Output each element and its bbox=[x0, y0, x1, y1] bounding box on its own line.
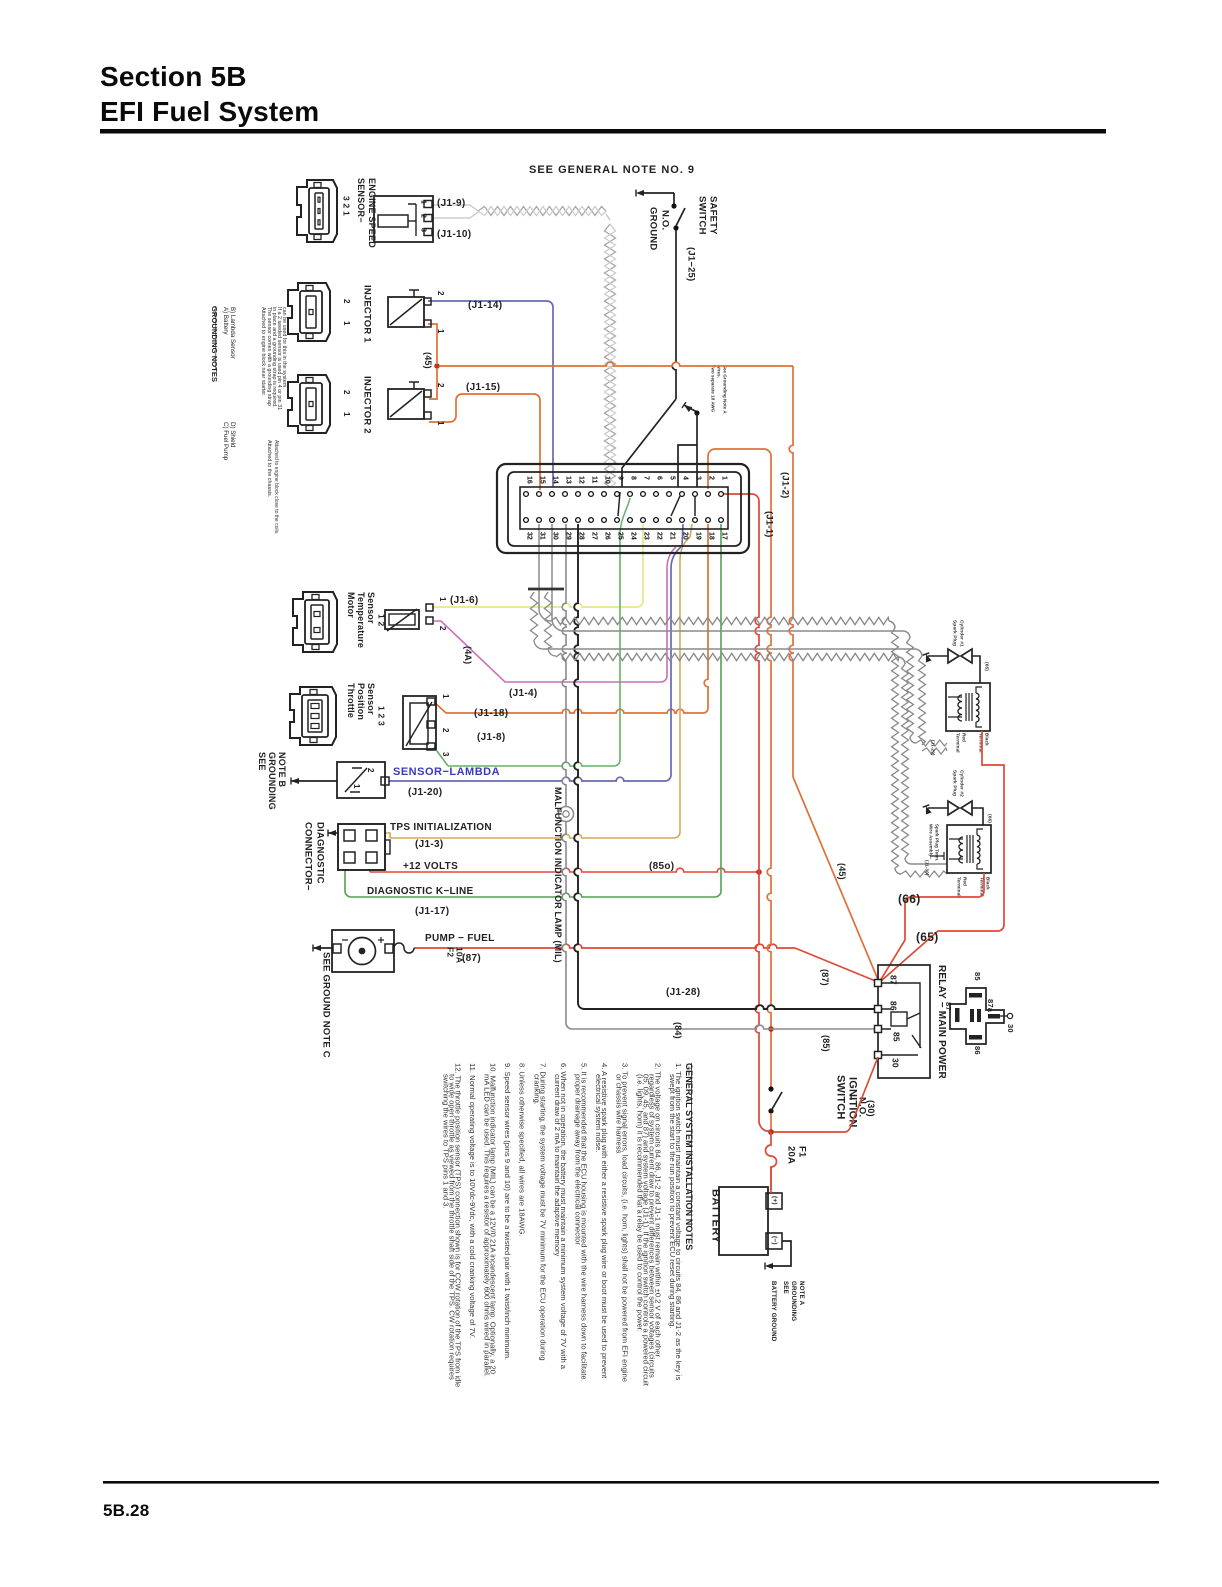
svg-text:GROUNDING: GROUNDING bbox=[790, 1281, 797, 1321]
wire coil1 red 65 bbox=[881, 731, 1004, 981]
svg-text:SAFETY: SAFETY bbox=[707, 196, 718, 235]
svg-text:Terminal: Terminal bbox=[957, 877, 962, 897]
svg-text:B) Lambda Sensor: B) Lambda Sensor bbox=[229, 307, 236, 359]
svg-text:85: 85 bbox=[973, 972, 982, 981]
svg-text:(66): (66) bbox=[898, 892, 921, 906]
svg-text:Wire Assembly−: Wire Assembly− bbox=[928, 824, 933, 860]
wire temp sensor pink 4A J1-4 bbox=[434, 547, 676, 682]
svg-text:32: 32 bbox=[525, 532, 532, 540]
svg-text:F1: F1 bbox=[796, 1146, 807, 1158]
lambda pin bbox=[381, 777, 389, 785]
svg-text:(J1-14): (J1-14) bbox=[468, 300, 502, 311]
connector icon injector 2 bbox=[288, 375, 330, 433]
svg-text:GROUNDING: GROUNDING bbox=[267, 752, 277, 810]
svg-text:See Grounding Note A: See Grounding Note A bbox=[722, 365, 727, 414]
svg-text:(45): (45) bbox=[837, 863, 847, 880]
wire battery plus from fuse bbox=[770, 1167, 772, 1193]
wire pump fuel red 87 bbox=[414, 944, 795, 948]
svg-text:2: 2 bbox=[436, 383, 445, 388]
svg-text:87a: 87a bbox=[986, 999, 995, 1013]
svg-text:SENSOR−: SENSOR− bbox=[356, 178, 366, 223]
connector icon throttle position sensor bbox=[290, 687, 336, 745]
svg-text:4: 4 bbox=[681, 476, 688, 480]
wire TPS initialization tan J1-3 bbox=[385, 833, 390, 838]
svg-text:3: 3 bbox=[694, 476, 701, 480]
relay socket icon bbox=[950, 988, 1004, 1044]
svg-text:Terminal: Terminal bbox=[956, 733, 961, 753]
wire black pin28 to relay 86 line 84 bbox=[574, 524, 578, 1003]
svg-text:(87): (87) bbox=[820, 969, 830, 986]
svg-text:(J1-4): (J1-4) bbox=[509, 688, 537, 699]
svg-text:RELAY − MAIN POWER: RELAY − MAIN POWER bbox=[936, 965, 947, 1079]
relay internals bbox=[881, 983, 920, 1048]
relay main power box bbox=[878, 965, 930, 1078]
diagnostic connector box bbox=[338, 824, 385, 870]
wire spark plug2 to coil2 bbox=[972, 808, 983, 825]
svg-text:11. Normal operating voltage: 11. Normal operating voltage is to 10Vdc… bbox=[468, 1063, 477, 1338]
svg-text:Black: Black bbox=[986, 877, 991, 890]
footer rule bbox=[103, 1481, 1159, 1484]
svg-text:(J1-10): (J1-10) bbox=[437, 229, 471, 240]
injector1 pin2 bbox=[424, 298, 431, 305]
svg-text:23: 23 bbox=[642, 532, 649, 540]
svg-text:1: 1 bbox=[342, 412, 351, 417]
wire 45 diagonal to relay 87 bbox=[793, 777, 879, 982]
svg-text:3 2 1: 3 2 1 bbox=[342, 196, 352, 216]
svg-text:+12 VOLTS: +12 VOLTS bbox=[403, 861, 458, 872]
ignition coil 1 bbox=[946, 683, 990, 731]
svg-text:(30): (30) bbox=[866, 1100, 876, 1117]
ground arrow lambda bbox=[291, 778, 299, 784]
svg-text:DIAGNOSTIC K−LINE: DIAGNOSTIC K−LINE bbox=[367, 886, 474, 897]
wire temp sensor yellow J1-6 bbox=[432, 603, 637, 607]
TPS body bbox=[403, 696, 436, 749]
svg-text:25: 25 bbox=[616, 532, 623, 540]
svg-text:(J1-18): (J1-18) bbox=[474, 708, 508, 719]
svg-text:30: 30 bbox=[551, 532, 558, 540]
ECU connector J1 outer shell bbox=[497, 464, 749, 553]
svg-text:3: 3 bbox=[441, 752, 450, 757]
svg-text:TPS INITIALIZATION: TPS INITIALIZATION bbox=[390, 822, 492, 833]
svg-text:NOTE A: NOTE A bbox=[798, 1281, 805, 1306]
coil pair straight horizontal 649 bbox=[543, 648, 915, 650]
node 45 junction bbox=[434, 363, 440, 369]
svg-text:2: 2 bbox=[342, 299, 351, 304]
wire injector1 pin1 orange to node 45 bbox=[428, 324, 437, 363]
svg-text:(J1-1): (J1-1) bbox=[763, 511, 774, 538]
safety switch SW1 bbox=[673, 193, 675, 204]
svg-text:8. Unless otherwise specified: 8. Unless otherwise specified, all wires… bbox=[518, 1063, 527, 1237]
wire J1-25 inside connector to pin 25 bbox=[618, 492, 620, 516]
svg-text:85: 85 bbox=[892, 1032, 902, 1042]
svg-text:Sensor: Sensor bbox=[366, 592, 376, 624]
wire relay85 grey horizontal bbox=[572, 1025, 876, 1029]
svg-text:Cylinder #2: Cylinder #2 bbox=[959, 770, 965, 797]
svg-text:1: 1 bbox=[419, 200, 426, 204]
svg-text:8: 8 bbox=[629, 476, 636, 480]
battery box bbox=[719, 1187, 768, 1255]
wire ignition switch lower to junction bbox=[770, 1113, 772, 1132]
svg-text:mA LED can be used. This requ: mA LED can be used. This requires a resi… bbox=[483, 1074, 492, 1377]
svg-text:9. Speed sensor wires (pins 9: 9. Speed sensor wires (pins 9 and 10) ar… bbox=[503, 1063, 512, 1360]
svg-text:Section 5B: Section 5B bbox=[100, 61, 247, 92]
svg-text:SEE: SEE bbox=[257, 752, 267, 771]
svg-text:N.O.: N.O. bbox=[659, 210, 670, 230]
svg-text:29: 29 bbox=[564, 532, 571, 540]
svg-text:22: 22 bbox=[655, 532, 662, 540]
svg-text:13: 13 bbox=[564, 476, 571, 484]
svg-text:6: 6 bbox=[655, 476, 662, 480]
svg-text:DIAGNOSTIC: DIAGNOSTIC bbox=[314, 822, 325, 884]
battery terminal plus bbox=[766, 1193, 782, 1209]
svg-text:D) Shield: D) Shield bbox=[229, 422, 236, 448]
svg-text:Spark Plug: Spark Plug bbox=[952, 620, 958, 646]
connector icon injector 1 bbox=[288, 283, 330, 341]
svg-text:(J1-6): (J1-6) bbox=[450, 595, 478, 606]
svg-text:14: 14 bbox=[551, 476, 558, 484]
injector 2 body bbox=[388, 389, 424, 419]
wire safety switch to general note arrow bbox=[640, 192, 674, 194]
svg-text:BATTERY: BATTERY bbox=[710, 1189, 722, 1243]
svg-text:Sensor: Sensor bbox=[366, 683, 376, 715]
ground arrow diagnostic bbox=[328, 830, 336, 836]
svg-text:SWITCH: SWITCH bbox=[696, 196, 707, 235]
svg-text:1: 1 bbox=[720, 476, 727, 480]
coil pair lower zigzag horizontal bbox=[556, 653, 899, 660]
svg-text:1: 1 bbox=[436, 421, 445, 426]
wire J1-2 orange from pin2 bbox=[708, 449, 771, 489]
svg-text:Position: Position bbox=[356, 683, 366, 720]
svg-text:Cylinder #1: Cylinder #1 bbox=[959, 620, 965, 647]
svg-text:(J1-9): (J1-9) bbox=[437, 198, 465, 209]
svg-text:20: 20 bbox=[681, 532, 688, 540]
svg-text:EFI Fuel System: EFI Fuel System bbox=[100, 96, 319, 127]
svg-text:(65): (65) bbox=[984, 662, 990, 671]
svg-text:Two separate 18 AWG: Two separate 18 AWG bbox=[710, 365, 715, 413]
wire lambda blue J1-20 bbox=[389, 777, 665, 781]
wire MIL grey from pin29 bbox=[562, 524, 566, 806]
svg-text:Red: Red bbox=[963, 877, 968, 886]
coil pair straight horizontal 631 bbox=[552, 619, 564, 631]
svg-text:or chassis wire harness: or chassis wire harness bbox=[615, 1074, 624, 1154]
fuse F1 20A bbox=[766, 1132, 777, 1190]
svg-text:current draw of 2 mA to mainta: current draw of 2 mA to maintain the ada… bbox=[553, 1074, 562, 1257]
svg-text:30: 30 bbox=[1006, 1024, 1015, 1033]
svg-text:INJECTOR 2: INJECTOR 2 bbox=[361, 376, 372, 434]
svg-text:7: 7 bbox=[642, 476, 649, 480]
svg-text:Temperature: Temperature bbox=[356, 592, 366, 648]
svg-text:16: 16 bbox=[525, 476, 532, 484]
TPS pins bbox=[427, 698, 435, 705]
svg-text:BATTERY GROUND: BATTERY GROUND bbox=[770, 1281, 777, 1342]
svg-text:SEE GROUND NOTE C: SEE GROUND NOTE C bbox=[320, 952, 331, 1058]
svg-text:(−): (−) bbox=[771, 1236, 778, 1245]
spark plug cylinder 1 bbox=[948, 649, 959, 663]
svg-text:(45): (45) bbox=[423, 352, 433, 369]
svg-text:28: 28 bbox=[577, 532, 584, 540]
svg-text:GENERAL SYSTEM INSTALLATION NO: GENERAL SYSTEM INSTALLATION NOTES bbox=[684, 1063, 694, 1250]
svg-text:GROUNDING NOTES: GROUNDING NOTES bbox=[210, 306, 219, 382]
coil1 pair horizontal into coil bbox=[910, 737, 916, 743]
svg-text:(85o): (85o) bbox=[649, 861, 674, 872]
svg-text:86: 86 bbox=[973, 1046, 982, 1055]
injector 1 body bbox=[388, 297, 424, 327]
svg-text:Attached to the chassis.: Attached to the chassis. bbox=[266, 440, 272, 497]
svg-text:2: 2 bbox=[419, 214, 426, 218]
ground arrow two separate wires bbox=[684, 405, 692, 412]
lambda sensor box bbox=[337, 762, 385, 798]
svg-text:(J1-17): (J1-17) bbox=[415, 906, 449, 917]
svg-text:(65): (65) bbox=[916, 930, 939, 944]
connector icon motor temp sensor bbox=[293, 592, 337, 652]
wire battery minus to ground bbox=[767, 1241, 791, 1266]
connector icon engine speed sensor bbox=[297, 180, 337, 242]
motor temp sensor body bbox=[385, 610, 419, 629]
svg-text:(66): (66) bbox=[987, 814, 993, 823]
svg-text:swept from the start to the ru: swept from the start to the run position… bbox=[668, 1074, 677, 1329]
svg-text:2: 2 bbox=[438, 626, 447, 631]
svg-text:20A: 20A bbox=[785, 1146, 796, 1164]
twisted pair speed sensor vertical to ECU bbox=[605, 224, 616, 487]
ECU pins and numbers bbox=[719, 492, 724, 497]
svg-text:87: 87 bbox=[944, 1002, 953, 1011]
wire coil2 red 66 bbox=[880, 873, 984, 981]
fuse F2 10A bbox=[394, 943, 414, 953]
wire ground pair to ECU pins 3 and 4 bbox=[694, 410, 699, 415]
svg-text:5: 5 bbox=[668, 476, 675, 480]
svg-text:Spark Plug: Spark Plug bbox=[952, 770, 958, 796]
svg-text:2: 2 bbox=[436, 291, 445, 296]
svg-text:C) Fuel Pump: C) Fuel Pump bbox=[222, 422, 229, 461]
header rule bbox=[100, 129, 1106, 134]
speed sensor pins bbox=[424, 201, 432, 208]
wire relay 30 to ignition switch bbox=[774, 1057, 878, 1132]
fuel pump box bbox=[332, 930, 394, 972]
svg-text:SEE GENERAL NOTE NO. 9: SEE GENERAL NOTE NO. 9 bbox=[529, 164, 695, 176]
svg-text:GROUND: GROUND bbox=[647, 207, 658, 250]
svg-text:(J1-28): (J1-28) bbox=[666, 987, 700, 998]
svg-text:SEE: SEE bbox=[782, 1281, 789, 1294]
svg-text:18: 18 bbox=[707, 532, 714, 540]
svg-text:(85): (85) bbox=[821, 1035, 831, 1052]
svg-text:(87): (87) bbox=[462, 953, 481, 964]
svg-text:Throttle: Throttle bbox=[346, 683, 356, 718]
svg-text:12: 12 bbox=[577, 476, 584, 484]
svg-text:2: 2 bbox=[342, 390, 351, 395]
wire +12 volts red 85o bbox=[369, 869, 371, 872]
svg-text:9: 9 bbox=[616, 476, 623, 480]
svg-text:(i.e. lights, horn) it is reco: (i.e. lights, horn) it is recommended th… bbox=[635, 1074, 644, 1332]
injector1 pin1 bbox=[424, 320, 431, 327]
svg-text:Attached to engine block near: Attached to engine block near starter. bbox=[260, 307, 266, 396]
svg-text:CONNECTOR−: CONNECTOR− bbox=[302, 822, 313, 891]
svg-text:(J1−25): (J1−25) bbox=[685, 247, 696, 281]
ignition coil 2 bbox=[947, 825, 991, 873]
wire spark plug1 to coil1 bbox=[972, 656, 980, 683]
wire speed sensor leads bbox=[433, 204, 470, 206]
wire TPS pin1 orange J1-18 bbox=[434, 702, 446, 713]
svg-text:86: 86 bbox=[889, 1001, 899, 1011]
svg-text:5B.28: 5B.28 bbox=[103, 1501, 149, 1520]
svg-text:SENSOR−LAMBDA: SENSOR−LAMBDA bbox=[393, 766, 500, 778]
svg-text:2: 2 bbox=[366, 768, 375, 773]
wire injector1 pin2 blue J1-14 bbox=[428, 301, 553, 487]
svg-text:Attached to engine block close: Attached to engine block close to the co… bbox=[273, 440, 279, 535]
svg-text:(+): (+) bbox=[771, 1196, 778, 1205]
svg-text:Black: Black bbox=[985, 733, 990, 746]
svg-text:87: 87 bbox=[889, 975, 899, 985]
svg-text:24: 24 bbox=[629, 532, 636, 540]
speed sensor plug box bbox=[374, 196, 433, 242]
spark plug cylinder 2 bbox=[948, 801, 959, 815]
svg-text:1: 1 bbox=[342, 321, 351, 326]
svg-text:15: 15 bbox=[538, 476, 545, 484]
wire grey pins30/31 down bbox=[538, 524, 540, 609]
wire diagnostic k-line green J1-17 bbox=[345, 869, 351, 897]
svg-text:1: 1 bbox=[352, 784, 361, 789]
svg-text:ENGINE SPEED: ENGINE SPEED bbox=[367, 178, 377, 248]
svg-text:21: 21 bbox=[668, 532, 675, 540]
svg-text:MALFUNCTION INDICATOR LAMP: MALFUNCTION INDICATOR LAMP (MIL) bbox=[553, 787, 563, 963]
svg-text:(84): (84) bbox=[673, 1022, 683, 1039]
relay pins bbox=[875, 980, 882, 987]
svg-text:1: 1 bbox=[438, 597, 447, 602]
wire 45 riser right bbox=[789, 366, 793, 777]
ECU connector middle shell bbox=[508, 472, 741, 546]
shield bar bbox=[528, 588, 564, 591]
svg-text:PUMP − FUEL: PUMP − FUEL bbox=[425, 933, 495, 944]
MIL lamp bbox=[559, 807, 574, 822]
wire injector2 pin1 orange J1-15 bbox=[429, 394, 540, 490]
svg-text:2: 2 bbox=[441, 728, 450, 733]
ignition switch contacts bbox=[768, 1086, 773, 1091]
ECU connector pin field bbox=[520, 487, 728, 529]
svg-text:Red: Red bbox=[962, 733, 967, 742]
svg-text:2: 2 bbox=[707, 476, 714, 480]
battery terminal minus bbox=[766, 1233, 782, 1249]
ground arrow fuel pump bbox=[313, 945, 321, 951]
svg-text:1: 1 bbox=[436, 329, 445, 334]
svg-text:(J1-15): (J1-15) bbox=[466, 382, 500, 393]
svg-text:(J1-29): (J1-29) bbox=[931, 740, 936, 756]
svg-text:31: 31 bbox=[538, 532, 545, 540]
wire TPS pin3 green J1-8 bbox=[434, 747, 448, 766]
injector2 pin1 bbox=[424, 412, 431, 419]
wire node45 to injector2 pin2 bbox=[429, 369, 437, 399]
svg-text:11: 11 bbox=[590, 476, 597, 484]
svg-text:NOTE B: NOTE B bbox=[277, 752, 287, 788]
svg-text:(J1-8): (J1-8) bbox=[477, 732, 505, 743]
svg-text:switching the wires to TPS pin: switching the wires to TPS pins 1 and 3. bbox=[441, 1074, 450, 1209]
svg-text:3: 3 bbox=[419, 228, 426, 232]
svg-text:electrical system noise.: electrical system noise. bbox=[594, 1074, 603, 1153]
shield zigzag drops bbox=[530, 592, 537, 640]
svg-text:proper drainage away from the: proper drainage away from the electrical… bbox=[574, 1074, 583, 1245]
wire J1-25 safety switch to ECU pin 25 bbox=[672, 230, 676, 399]
svg-text:27: 27 bbox=[590, 532, 597, 540]
svg-text:7. During starting, the syste: 7. During starting, the system voltage m… bbox=[538, 1063, 547, 1361]
svg-text:19: 19 bbox=[694, 532, 701, 540]
svg-text:F2: F2 bbox=[446, 947, 456, 957]
coil2 pair horizontal into coil bbox=[895, 868, 901, 874]
svg-text:1: 1 bbox=[441, 694, 450, 699]
svg-text:30: 30 bbox=[891, 1058, 901, 1068]
twisted pair speed sensor horizontal bbox=[478, 207, 606, 216]
svg-text:10: 10 bbox=[603, 476, 610, 484]
wire 45 horizontal bbox=[440, 362, 793, 366]
svg-text:1 2 3: 1 2 3 bbox=[377, 706, 387, 726]
svg-text:can be used for this in the sy: can be used for this in the system. bbox=[281, 307, 287, 389]
svg-text:(J1-30): (J1-30) bbox=[925, 860, 930, 876]
coil1 pair vertical descent bbox=[903, 631, 910, 638]
svg-text:Motor: Motor bbox=[346, 592, 356, 618]
svg-text:(J1-2): (J1-2) bbox=[779, 472, 790, 499]
svg-text:(J1-20): (J1-20) bbox=[408, 787, 442, 798]
svg-text:(J1-3): (J1-3) bbox=[415, 839, 443, 850]
svg-text:INJECTOR 1: INJECTOR 1 bbox=[361, 285, 372, 343]
svg-text:(4A): (4A) bbox=[463, 646, 473, 664]
coil2 pair vertical descent bbox=[889, 621, 895, 628]
wire J1-1 red from pin1 bbox=[721, 494, 759, 512]
svg-text:17: 17 bbox=[720, 532, 727, 540]
coil pair upper zigzag horizontal bbox=[539, 609, 551, 621]
temp sensor pins bbox=[426, 604, 433, 611]
svg-text:A) Battery: A) Battery bbox=[222, 307, 229, 335]
injector2 pin2 bbox=[424, 390, 431, 397]
svg-text:cranking.: cranking. bbox=[532, 1074, 541, 1105]
svg-text:26: 26 bbox=[603, 532, 610, 540]
